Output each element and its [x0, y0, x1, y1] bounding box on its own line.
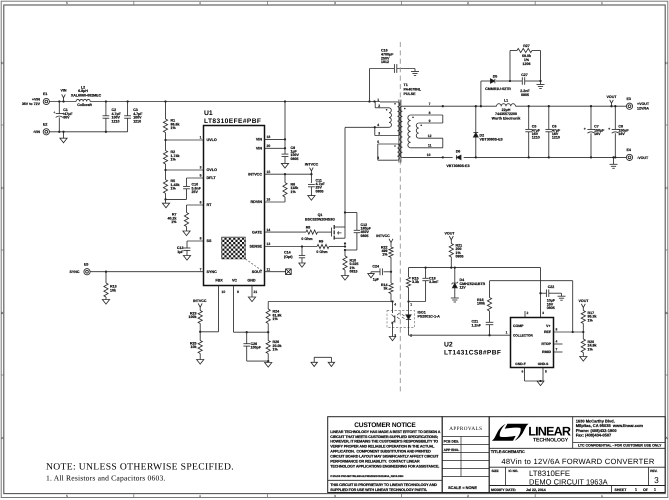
svg-text:1. All Resistors and Capacitor: 1. All Resistors and Capacitors 0603.	[46, 473, 166, 482]
svg-text:VERIFY PROPER AND RELIABLE OPE: VERIFY PROPER AND RELIABLE OPERATION IN …	[330, 445, 435, 449]
svg-text:36V to 72V: 36V to 72V	[22, 102, 41, 106]
svg-text:R8: R8	[306, 226, 311, 230]
svg-text:DFLT: DFLT	[207, 176, 217, 180]
svg-text:11V: 11V	[460, 286, 467, 290]
svg-text:Jul 22, 2014: Jul 22, 2014	[526, 488, 546, 492]
svg-text:2: 2	[527, 311, 529, 315]
svg-text:2: 2	[378, 104, 380, 108]
svg-text:VOUT: VOUT	[579, 299, 590, 303]
svg-text:SYNC: SYNC	[70, 270, 80, 274]
svg-text:5: 5	[545, 370, 547, 374]
svg-text:NOTE: UNLESS OTHERWISE SPECIFI: NOTE: UNLESS OTHERWISE SPECIFIED.	[46, 462, 234, 473]
svg-text:+VIN: +VIN	[32, 97, 40, 101]
svg-text:100k: 100k	[189, 315, 197, 319]
svg-text:7: 7	[200, 267, 202, 271]
svg-text:1206: 1206	[523, 62, 531, 66]
svg-text:15: 15	[267, 170, 271, 174]
svg-text:PS2801C-1-A: PS2801C-1-A	[418, 314, 441, 318]
svg-text:CUSTOMER NOTICE: CUSTOMER NOTICE	[354, 422, 416, 429]
svg-text:L1: L1	[504, 99, 508, 103]
svg-text:3: 3	[200, 166, 202, 170]
svg-text:SCALE = NONE: SCALE = NONE	[448, 485, 477, 490]
svg-text:U1: U1	[204, 110, 213, 117]
svg-text:11: 11	[428, 144, 432, 148]
svg-text:TITLE:: TITLE:	[491, 450, 503, 454]
svg-text:GND-S: GND-S	[538, 362, 549, 366]
svg-text:PULSE: PULSE	[404, 92, 417, 96]
svg-text:100pF: 100pF	[251, 346, 262, 350]
svg-text:OF: OF	[643, 488, 649, 492]
svg-text:RT: RT	[207, 203, 213, 207]
svg-text:CIRCUIT BOARD LAYOUT MAY SIGNI: CIRCUIT BOARD LAYOUT MAY SIGNIFICANTLY A…	[330, 455, 439, 459]
svg-text:PA4078NL: PA4078NL	[404, 88, 422, 92]
svg-text:1210: 1210	[133, 119, 141, 123]
svg-text:8: 8	[200, 237, 202, 241]
svg-text:-VIN: -VIN	[33, 130, 41, 134]
svg-text:+: +	[584, 127, 586, 131]
svg-text:C27: C27	[521, 73, 528, 77]
svg-text:1%: 1%	[171, 126, 177, 130]
svg-text:B: B	[665, 311, 667, 315]
svg-text:VIN: VIN	[256, 138, 262, 142]
svg-text:A: A	[665, 436, 667, 440]
svg-text:0815: 0815	[350, 269, 358, 273]
svg-text:Q1: Q1	[318, 213, 323, 217]
svg-text:10: 10	[427, 153, 431, 157]
svg-text:4: 4	[377, 123, 379, 127]
svg-text:RMID: RMID	[542, 350, 551, 354]
svg-text:21: 21	[254, 290, 258, 294]
svg-text:REF: REF	[544, 330, 552, 334]
svg-text:THIS CIRCUIT IS PROPRIETARY TO: THIS CIRCUIT IS PROPRIETARY TO LINEAR TE…	[330, 483, 437, 487]
svg-text:VBT3080S-E3: VBT3080S-E3	[480, 137, 503, 141]
svg-text:14: 14	[267, 228, 271, 232]
svg-text:VIN: VIN	[61, 88, 67, 92]
svg-text:LT1431CS8#PBF: LT1431CS8#PBF	[444, 350, 501, 357]
svg-text:5: 5	[377, 140, 379, 144]
svg-text:18: 18	[267, 135, 271, 139]
svg-text:16V: 16V	[618, 132, 625, 136]
svg-text:CIRCUIT THAT MEETS CUSTOMER-SU: CIRCUIT THAT MEETS CUSTOMER-SUPPLIED SPE…	[330, 435, 438, 439]
svg-text:INTVCC: INTVCC	[248, 172, 262, 176]
svg-text:100k: 100k	[477, 302, 485, 306]
svg-text:E2: E2	[43, 123, 47, 127]
svg-text:16: 16	[267, 198, 271, 202]
svg-text:R27: R27	[523, 44, 530, 48]
svg-text:CMMR1U-02TR: CMMR1U-02TR	[485, 87, 511, 91]
svg-text:XAL6060-682MEC: XAL6060-682MEC	[71, 93, 102, 97]
svg-text:SS: SS	[207, 239, 212, 243]
svg-text:MODIFY DATE:: MODIFY DATE:	[491, 488, 516, 492]
svg-text:1%: 1%	[273, 348, 279, 352]
svg-text:0805: 0805	[316, 189, 324, 193]
svg-text:1210: 1210	[532, 136, 540, 140]
svg-text:1µF: 1µF	[373, 277, 380, 281]
svg-text:SHEET: SHEET	[615, 488, 628, 492]
svg-text:T1: T1	[404, 83, 408, 87]
svg-text:48Vin to 12V/6A FORWARD CONVER: 48Vin to 12V/6A FORWARD CONVERTER	[501, 457, 654, 466]
svg-text:1: 1	[654, 488, 656, 492]
svg-text:1%: 1%	[588, 347, 594, 351]
svg-text:PCB DES.: PCB DES.	[444, 439, 460, 443]
svg-text:4: 4	[556, 340, 558, 344]
svg-text:GND: GND	[247, 279, 256, 283]
svg-text:RDVIN: RDVIN	[251, 200, 263, 204]
svg-text:3.3k: 3.3k	[412, 280, 419, 284]
svg-text:+: +	[53, 110, 55, 114]
svg-text:SCHEMATIC: SCHEMATIC	[503, 450, 526, 454]
svg-text:D6: D6	[456, 150, 461, 154]
svg-text:13: 13	[267, 242, 271, 246]
svg-text:Wurth Electronik: Wurth Electronik	[492, 116, 521, 120]
svg-text:VC: VC	[232, 279, 237, 283]
svg-text:SUPPLIED FOR USE WITH LINEAR T: SUPPLIED FOR USE WITH LINEAR TECHNOLOGY …	[330, 488, 427, 492]
svg-text:VOUT: VOUT	[445, 231, 456, 235]
svg-text:8: 8	[556, 328, 558, 332]
svg-text:1%: 1%	[171, 158, 177, 162]
svg-text:11: 11	[267, 267, 271, 271]
svg-text:GND-F: GND-F	[515, 362, 525, 366]
svg-text:10k: 10k	[191, 345, 197, 349]
svg-text:+: +	[608, 127, 610, 131]
svg-text:0 Ohm: 0 Ohm	[301, 237, 312, 241]
svg-text:E1: E1	[43, 92, 47, 96]
svg-text:VOUT: VOUT	[607, 95, 618, 99]
svg-text:APP ENG.: APP ENG.	[444, 448, 460, 452]
svg-text:VBT3080S-E3: VBT3080S-E3	[446, 164, 469, 168]
svg-text:7: 7	[556, 348, 558, 352]
svg-text:COMP: COMP	[513, 324, 524, 328]
svg-text:0805: 0805	[521, 93, 529, 97]
svg-text:1%: 1%	[273, 317, 279, 321]
svg-text:A: A	[1, 436, 3, 440]
svg-text:E5: E5	[84, 263, 88, 267]
svg-text:8: 8	[429, 111, 431, 115]
svg-text:1µF: 1µF	[177, 250, 184, 254]
svg-text:HOWEVER, IT REMAINS THE CUSTOM: HOWEVER, IT REMAINS THE CUSTOMER'S RESPO…	[330, 440, 438, 444]
svg-text:Coilcraft: Coilcraft	[77, 103, 92, 107]
svg-text:3: 3	[542, 311, 544, 315]
svg-text:12: 12	[428, 134, 432, 138]
svg-text:TECHNOLOGY APPLICATIONS ENGINE: TECHNOLOGY APPLICATIONS ENGINEERING FOR …	[330, 465, 439, 469]
svg-text:9: 9	[237, 290, 239, 294]
svg-text:1.2nF: 1.2nF	[472, 323, 482, 327]
svg-text:1812: 1812	[381, 60, 389, 64]
svg-text:INTVCC: INTVCC	[193, 299, 207, 303]
svg-text:INTVCC: INTVCC	[305, 162, 319, 166]
svg-text:BSC320N20NS3G: BSC320N20NS3G	[305, 218, 335, 222]
svg-text:80V: 80V	[63, 116, 70, 120]
svg-text:1: 1	[635, 488, 637, 492]
svg-text:E3: E3	[627, 97, 631, 101]
svg-text:B: B	[1, 311, 3, 315]
svg-text:RTOP: RTOP	[541, 342, 551, 346]
svg-text:1: 1	[377, 98, 379, 102]
svg-text:V+: V+	[546, 324, 550, 328]
svg-text:APPLICATION. COMPONENT SUBSTI: APPLICATION. COMPONENT SUBSTITUTION AND …	[330, 450, 431, 454]
svg-text:SIZE: SIZE	[492, 469, 499, 473]
svg-text:1%: 1%	[171, 220, 177, 224]
svg-text:GATE: GATE	[252, 230, 263, 234]
svg-text:C:\PADS PROJECTS\LINDA\LT8310F: C:\PADS PROJECTS\LINDA\LT8310FE\DCH\1963…	[330, 475, 403, 478]
svg-text:10: 10	[222, 290, 226, 294]
svg-text:REV.: REV.	[650, 469, 657, 473]
svg-text:6: 6	[200, 201, 202, 205]
svg-text:7: 7	[429, 102, 431, 106]
svg-text:VIN: VIN	[256, 147, 262, 151]
svg-text:0 Ohm: 0 Ohm	[316, 250, 327, 254]
svg-text:1%: 1%	[171, 187, 177, 191]
svg-text:UVLO: UVLO	[207, 138, 217, 142]
svg-text:10k: 10k	[110, 288, 116, 292]
svg-text:25V: 25V	[192, 190, 199, 194]
svg-text:3: 3	[378, 132, 380, 136]
svg-text:LINEAR: LINEAR	[528, 424, 571, 438]
svg-text:5: 5	[200, 174, 202, 178]
svg-text:(Opt): (Opt)	[284, 255, 293, 259]
svg-text:20: 20	[267, 144, 271, 148]
svg-text:OVLO: OVLO	[207, 168, 218, 172]
svg-text:0805: 0805	[361, 234, 369, 238]
svg-text:C22: C22	[548, 285, 555, 289]
svg-text:D5: D5	[493, 75, 498, 79]
svg-text:1: 1	[506, 330, 508, 334]
svg-text:1210: 1210	[112, 119, 120, 123]
svg-text:-VOUT: -VOUT	[637, 156, 649, 160]
svg-text:1%: 1%	[291, 190, 297, 194]
svg-text:IC NO.: IC NO.	[509, 469, 519, 473]
svg-text:LINEAR TECHNOLOGY HAS MADE A B: LINEAR TECHNOLOGY HAS MADE A BEST EFFORT…	[330, 430, 440, 434]
svg-text:COLLECTOR: COLLECTOR	[513, 333, 533, 337]
svg-text:1: 1	[410, 303, 412, 307]
svg-text:APPROVALS: APPROVALS	[449, 426, 482, 432]
svg-text:E4: E4	[627, 148, 631, 152]
svg-text:4: 4	[394, 303, 396, 307]
svg-text:INTVCC: INTVCC	[376, 234, 390, 238]
svg-text:1: 1	[200, 136, 202, 140]
svg-text:+VOUT: +VOUT	[637, 102, 650, 106]
svg-text:FBX: FBX	[215, 279, 223, 283]
svg-text:TECHNOLOGY: TECHNOLOGY	[533, 438, 569, 444]
svg-text:LTC CONFIDENTIAL - FOR CUSTOME: LTC CONFIDENTIAL - FOR CUSTOMER USE ONLY	[578, 443, 662, 447]
svg-text:R9: R9	[319, 240, 324, 244]
svg-text:1%: 1%	[588, 318, 594, 322]
svg-text:C24: C24	[372, 265, 379, 269]
svg-text:9: 9	[429, 119, 431, 123]
svg-text:0805: 0805	[547, 306, 555, 310]
svg-text:3: 3	[654, 475, 659, 485]
svg-text:0805: 0805	[456, 255, 464, 259]
svg-text:0805: 0805	[291, 157, 299, 161]
svg-text:U2: U2	[444, 341, 453, 348]
svg-text:1%: 1%	[382, 253, 388, 257]
svg-text:3k: 3k	[384, 287, 388, 291]
svg-text:1210: 1210	[552, 136, 560, 140]
svg-text:16V: 16V	[594, 132, 601, 136]
svg-text:12V/6A: 12V/6A	[637, 107, 649, 111]
svg-text:3.3nF: 3.3nF	[429, 280, 439, 284]
svg-text:6: 6	[522, 370, 524, 374]
svg-text:6: 6	[377, 156, 379, 160]
svg-text:Fax: (408)434-0507: Fax: (408)434-0507	[576, 433, 612, 438]
svg-text:SOUT: SOUT	[252, 270, 263, 274]
svg-text:PERFORMANCE OR RELIABILITY. C: PERFORMANCE OR RELIABILITY. CONTACT LINE…	[330, 460, 420, 464]
svg-text:LT8310EFE#PBF: LT8310EFE#PBF	[204, 118, 261, 125]
svg-text:SYNC: SYNC	[207, 270, 218, 274]
svg-text:SENSE: SENSE	[249, 245, 262, 249]
